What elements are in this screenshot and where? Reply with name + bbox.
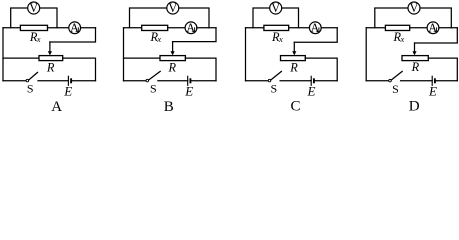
svg-text:E: E	[184, 84, 193, 99]
wire: battery E to right rail (circuit B)	[191, 80, 216, 82]
wire: left rail to rheostat R left terminal (circuit A)	[3, 57, 39, 59]
wire: battery E to right rail (circuit D)	[436, 80, 457, 82]
svg-text:D: D	[409, 99, 420, 115]
svg-text:A: A	[51, 99, 62, 115]
wire: bottom left to switch S (circuit C)	[246, 80, 269, 82]
wire: feed from A down and across to rheostat slider (circuit A)	[50, 28, 96, 42]
wire: left rail to rheostat R left terminal (circuit B)	[124, 57, 161, 59]
ammeter A (circuit D)	[427, 21, 439, 35]
switch S (circuit B)	[146, 71, 160, 81]
svg-text:V: V	[29, 1, 38, 15]
wire: bottom left to switch S (circuit B)	[124, 80, 147, 82]
svg-text:A: A	[70, 21, 79, 35]
svg-text:E: E	[63, 84, 72, 99]
wire: ammeter A to right corner (circuit A)	[81, 27, 96, 29]
wire: voltmeter V right lead (circuit C)	[282, 8, 299, 28]
svg-text:S: S	[392, 82, 399, 96]
resistor Rx (circuit C)	[264, 25, 289, 30]
battery E (circuit C)	[311, 76, 314, 86]
rheostat R body (circuit C)	[281, 56, 306, 61]
battery E (circuit B)	[188, 76, 191, 86]
wire: switch S to battery E (circuit D)	[401, 80, 433, 82]
wire: Rx to ammeter A (circuit C)	[289, 27, 310, 29]
wire: rheostat R right terminal to right rail (circuit B)	[185, 58, 216, 81]
svg-text:A: A	[186, 21, 195, 35]
wire: voltmeter V right lead (circuit B)	[179, 8, 209, 28]
wire: voltmeter V right lead (circuit A)	[40, 8, 57, 28]
wire: left vertical rail of circuit D	[365, 28, 367, 81]
svg-text:R: R	[411, 60, 420, 74]
svg-text:V: V	[410, 1, 419, 15]
resistor Rx (circuit B)	[142, 25, 168, 30]
label Rx (circuit B)	[149, 30, 161, 44]
wire: battery E to right rail (circuit A)	[72, 80, 95, 82]
wire: rheostat R right terminal to right rail (circuit A)	[63, 58, 96, 81]
wire: node from left rail to Rx (circuit D)	[366, 27, 385, 29]
battery E (circuit D)	[432, 76, 435, 86]
rheostat R slider arrow (circuit C)	[292, 42, 296, 55]
wire: node from left rail to Rx (circuit A)	[3, 27, 20, 29]
voltmeter V (circuit C)	[270, 1, 282, 15]
rheostat R body (circuit D)	[402, 56, 428, 61]
svg-text:A: A	[428, 21, 437, 35]
svg-text:A: A	[311, 21, 320, 35]
wire: left vertical rail of circuit A	[2, 28, 4, 81]
svg-text:x: x	[156, 34, 161, 44]
wire: Rx to ammeter A (circuit B)	[168, 27, 185, 29]
wire: left vertical rail of circuit B	[123, 28, 125, 81]
svg-text:S: S	[27, 82, 34, 96]
ammeter A (circuit C)	[309, 21, 321, 35]
svg-text:S: S	[150, 82, 157, 96]
wire: voltmeter V left lead (circuit A)	[11, 8, 28, 28]
wire: switch S to battery E (circuit C)	[280, 80, 311, 82]
svg-text:V: V	[271, 1, 280, 15]
svg-text:V: V	[168, 1, 177, 15]
rheostat R slider arrow (circuit A)	[48, 42, 52, 55]
svg-text:S: S	[270, 82, 277, 96]
svg-text:R: R	[289, 60, 298, 74]
svg-text:x: x	[400, 34, 405, 44]
wire: node from left rail to Rx (circuit B)	[124, 27, 142, 29]
rheostat R slider arrow (circuit D)	[412, 43, 416, 55]
rheostat R body (circuit B)	[160, 56, 185, 61]
ammeter A (circuit B)	[185, 21, 197, 35]
wire: bottom left to switch S (circuit D)	[366, 80, 389, 82]
wire: node from left rail to Rx (circuit C)	[246, 27, 264, 29]
wire: feed from A down and across to rheostat slider (circuit B)	[173, 28, 216, 42]
wire: voltmeter V right lead (circuit D)	[420, 8, 451, 28]
wire: feed from A down and across to rheostat slider (circuit D)	[415, 28, 458, 43]
svg-text:x: x	[36, 34, 41, 44]
rheostat R body (circuit A)	[39, 56, 63, 61]
voltmeter V (circuit D)	[408, 1, 420, 15]
wire: ammeter A to right corner (circuit D)	[439, 27, 457, 29]
svg-text:C: C	[290, 99, 300, 115]
voltmeter V (circuit A)	[28, 1, 40, 15]
label Rx (circuit D)	[393, 30, 405, 44]
resistor Rx (circuit D)	[385, 25, 409, 30]
svg-text:E: E	[428, 84, 437, 99]
svg-text:B: B	[164, 99, 174, 115]
rheostat R slider arrow (circuit B)	[171, 42, 175, 56]
wire: Rx to ammeter A (circuit D)	[410, 27, 427, 29]
switch S (circuit C)	[268, 71, 281, 81]
switch S (circuit D)	[389, 71, 402, 81]
wire: rheostat R right terminal to right rail (circuit D)	[428, 58, 457, 81]
wire: voltmeter V left lead (circuit B)	[130, 8, 167, 28]
resistor Rx (circuit A)	[20, 25, 47, 30]
wire: ammeter A to right corner (circuit C)	[321, 27, 337, 29]
svg-text:R: R	[168, 60, 177, 74]
wire: voltmeter V left lead (circuit C)	[253, 8, 270, 28]
ammeter A (circuit A)	[69, 21, 81, 35]
label Rx (circuit A)	[29, 30, 41, 44]
battery E (circuit A)	[68, 76, 71, 86]
wire: rheostat R right terminal to right rail (circuit C)	[305, 58, 337, 81]
svg-text:E: E	[307, 84, 316, 99]
wire: voltmeter V left lead (circuit D)	[375, 8, 408, 28]
svg-text:x: x	[278, 34, 283, 44]
wire: ammeter A to right corner (circuit B)	[197, 27, 216, 29]
wire: feed from A down and across to rheostat slider (circuit C)	[294, 28, 337, 43]
label Rx (circuit C)	[271, 30, 283, 44]
wire: switch S to battery E (circuit A)	[38, 80, 68, 82]
wire: bottom left to switch S (circuit A)	[3, 80, 26, 82]
voltmeter V (circuit B)	[167, 1, 179, 15]
wire: battery E to right rail (circuit C)	[315, 80, 337, 82]
wire: left vertical rail of circuit C	[245, 28, 247, 81]
wire: switch S to battery E (circuit B)	[158, 80, 188, 82]
svg-text:R: R	[46, 60, 55, 74]
switch S (circuit A)	[26, 72, 37, 81]
wire: Rx to ammeter A (circuit A)	[48, 27, 69, 29]
